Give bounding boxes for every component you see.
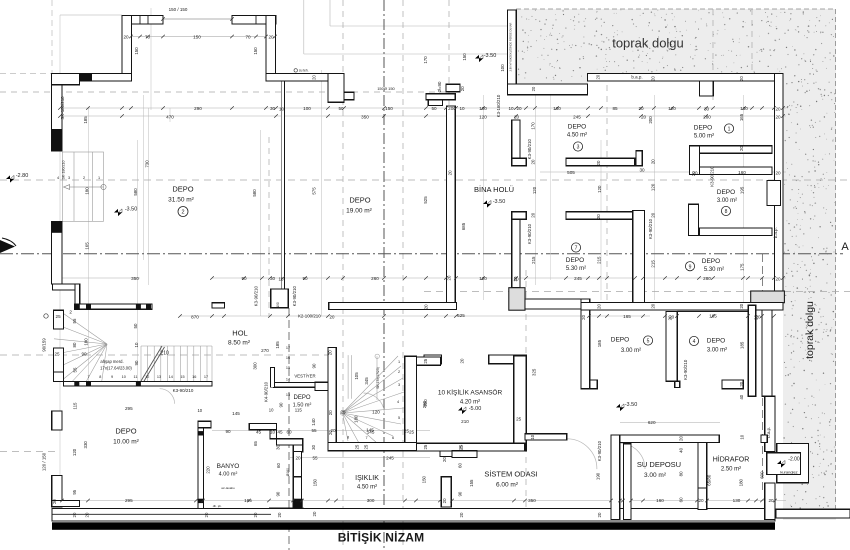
svg-text:25: 25 bbox=[423, 444, 428, 449]
svg-text:115: 115 bbox=[295, 408, 303, 413]
svg-text:150Ø 150: 150Ø 150 bbox=[377, 86, 395, 91]
svg-text:20: 20 bbox=[204, 512, 209, 517]
svg-text:90: 90 bbox=[81, 352, 87, 357]
svg-text:100: 100 bbox=[479, 106, 487, 111]
svg-text:40: 40 bbox=[739, 394, 744, 399]
svg-text:20: 20 bbox=[459, 358, 464, 363]
svg-text:DEPO: DEPO bbox=[702, 258, 720, 265]
svg-text:10: 10 bbox=[278, 277, 284, 282]
svg-text:10 KİŞİLİK ASANSÖR: 10 KİŞİLİK ASANSÖR bbox=[438, 388, 503, 397]
svg-text:4: 4 bbox=[57, 176, 59, 180]
svg-text:90: 90 bbox=[241, 276, 247, 281]
svg-text:HİDRAFOR: HİDRAFOR bbox=[713, 455, 750, 464]
svg-text:10: 10 bbox=[279, 107, 285, 112]
svg-text:toprak dolgu: toprak dolgu bbox=[612, 36, 684, 51]
svg-text:wc-lavabo: wc-lavabo bbox=[221, 486, 235, 490]
svg-text:200: 200 bbox=[648, 116, 653, 124]
svg-text:3.00 m²: 3.00 m² bbox=[644, 472, 667, 479]
svg-text:160: 160 bbox=[553, 106, 561, 111]
svg-text:90: 90 bbox=[312, 363, 317, 368]
svg-text:A: A bbox=[841, 241, 849, 253]
svg-text:20: 20 bbox=[596, 160, 601, 165]
svg-text:14: 14 bbox=[169, 375, 173, 379]
svg-text:5.00 m²: 5.00 m² bbox=[694, 134, 714, 140]
svg-text:DEPO: DEPO bbox=[115, 427, 136, 436]
svg-text:140: 140 bbox=[311, 418, 316, 426]
svg-text:su teh.: su teh. bbox=[299, 69, 309, 73]
svg-text:120: 120 bbox=[372, 410, 380, 415]
svg-text:20: 20 bbox=[596, 74, 601, 79]
svg-text:20: 20 bbox=[775, 107, 781, 112]
svg-text:VESTİYER: VESTİYER bbox=[294, 374, 315, 379]
svg-text:DEPO: DEPO bbox=[293, 395, 310, 401]
svg-text:20: 20 bbox=[459, 512, 464, 517]
svg-text:30: 30 bbox=[270, 106, 276, 111]
svg-text:db. şb.: db. şb. bbox=[213, 504, 222, 508]
svg-text:BANYO: BANYO bbox=[217, 463, 240, 470]
svg-text:180: 180 bbox=[739, 478, 744, 486]
svg-text:20: 20 bbox=[312, 511, 317, 516]
svg-text:20: 20 bbox=[596, 214, 601, 219]
svg-text:2: 2 bbox=[69, 310, 72, 315]
svg-text:150: 150 bbox=[193, 35, 201, 40]
svg-text:20: 20 bbox=[668, 315, 673, 320]
svg-text:20: 20 bbox=[754, 314, 759, 319]
svg-text:K3-90/210: K3-90/210 bbox=[527, 139, 532, 160]
svg-text:145: 145 bbox=[232, 411, 240, 416]
svg-text:245: 245 bbox=[386, 456, 394, 461]
svg-text:20: 20 bbox=[424, 304, 429, 309]
svg-text:600: 600 bbox=[760, 471, 765, 479]
svg-text:13: 13 bbox=[286, 393, 290, 397]
svg-text:8: 8 bbox=[347, 436, 349, 440]
svg-text:4.50 m²: 4.50 m² bbox=[357, 485, 377, 491]
svg-text:580: 580 bbox=[133, 188, 138, 196]
svg-text:20: 20 bbox=[72, 512, 77, 517]
svg-text:180: 180 bbox=[83, 338, 88, 346]
svg-text:4.20 m²: 4.20 m² bbox=[460, 400, 480, 406]
svg-text:55: 55 bbox=[311, 428, 317, 433]
svg-text:Ø=90: Ø=90 bbox=[437, 81, 442, 92]
svg-text:7: 7 bbox=[365, 436, 367, 440]
svg-text:20: 20 bbox=[597, 512, 602, 517]
svg-text:685: 685 bbox=[461, 222, 466, 230]
svg-text:20: 20 bbox=[123, 35, 129, 40]
svg-text:20: 20 bbox=[775, 277, 781, 282]
svg-text:SK-180/210: SK-180/210 bbox=[61, 161, 65, 180]
svg-text:150: 150 bbox=[253, 47, 258, 55]
svg-text:295: 295 bbox=[125, 498, 133, 503]
svg-text:DEPO: DEPO bbox=[717, 189, 735, 196]
svg-text:17: 17 bbox=[286, 346, 290, 350]
svg-text:290: 290 bbox=[194, 106, 202, 111]
svg-text:40: 40 bbox=[679, 447, 684, 452]
svg-text:115: 115 bbox=[72, 402, 77, 410]
svg-text:620: 620 bbox=[648, 420, 656, 425]
svg-text:20: 20 bbox=[651, 303, 656, 308]
svg-text:25: 25 bbox=[56, 314, 62, 319]
svg-text:85: 85 bbox=[612, 106, 618, 111]
svg-text:20: 20 bbox=[328, 410, 333, 415]
svg-text:210: 210 bbox=[160, 351, 169, 357]
svg-text:12: 12 bbox=[145, 375, 149, 379]
svg-text:8.50 m²: 8.50 m² bbox=[228, 340, 251, 347]
svg-text:180: 180 bbox=[85, 187, 90, 195]
svg-text:DEPO: DEPO bbox=[568, 124, 586, 131]
svg-text:20: 20 bbox=[581, 314, 586, 319]
svg-text:20: 20 bbox=[698, 498, 704, 503]
svg-text:20: 20 bbox=[311, 75, 316, 80]
svg-text:150: 150 bbox=[385, 106, 393, 111]
svg-text:20: 20 bbox=[775, 171, 781, 176]
svg-text:19.00 m²: 19.00 m² bbox=[346, 208, 372, 215]
svg-text:8: 8 bbox=[725, 209, 728, 215]
svg-text:SU DEPOSU: SU DEPOSU bbox=[637, 460, 681, 469]
svg-text:350: 350 bbox=[131, 276, 139, 281]
svg-text:90: 90 bbox=[276, 491, 281, 496]
svg-text:80: 80 bbox=[72, 342, 77, 347]
svg-text:20: 20 bbox=[651, 76, 656, 81]
svg-text:K3-90/210: K3-90/210 bbox=[253, 286, 258, 307]
svg-text:345: 345 bbox=[364, 377, 369, 385]
svg-text:150: 150 bbox=[134, 47, 139, 55]
svg-text:90: 90 bbox=[457, 491, 462, 496]
svg-text:K3-90/210: K3-90/210 bbox=[527, 223, 532, 244]
svg-text:6: 6 bbox=[392, 436, 394, 440]
svg-text:25: 25 bbox=[340, 410, 346, 415]
svg-text:185: 185 bbox=[597, 339, 602, 347]
svg-text:IŞIKLIK: IŞIKLIK bbox=[355, 475, 379, 482]
svg-text:17: 17 bbox=[204, 375, 208, 379]
svg-text:65: 65 bbox=[253, 441, 258, 446]
svg-text:SİSTEM ODASI: SİSTEM ODASI bbox=[484, 470, 537, 479]
svg-text:295: 295 bbox=[125, 406, 133, 411]
svg-text:-3.50: -3.50 bbox=[625, 402, 638, 408]
svg-text:20: 20 bbox=[447, 275, 452, 280]
svg-text:K3-90/210: K3-90/210 bbox=[648, 218, 653, 239]
svg-text:4.00 m²: 4.00 m² bbox=[219, 472, 238, 478]
svg-text:20: 20 bbox=[638, 106, 644, 111]
svg-text:20: 20 bbox=[447, 170, 452, 175]
svg-text:10: 10 bbox=[197, 408, 202, 413]
svg-text:90: 90 bbox=[134, 360, 139, 365]
svg-text:b.a.p.: b.a.p. bbox=[773, 227, 778, 238]
svg-text:20: 20 bbox=[679, 436, 684, 441]
svg-text:20: 20 bbox=[330, 314, 335, 319]
svg-text:100: 100 bbox=[500, 64, 505, 72]
svg-text:55: 55 bbox=[312, 456, 318, 461]
svg-text:60: 60 bbox=[679, 497, 684, 502]
svg-text:2.50 m²: 2.50 m² bbox=[721, 467, 741, 473]
svg-text:HOL: HOL bbox=[232, 329, 247, 338]
svg-text:3: 3 bbox=[398, 383, 400, 387]
svg-text:30: 30 bbox=[276, 444, 281, 449]
svg-text:55: 55 bbox=[73, 367, 78, 372]
svg-text:3: 3 bbox=[68, 176, 70, 180]
svg-text:120: 120 bbox=[72, 448, 77, 456]
svg-text:20: 20 bbox=[328, 350, 333, 355]
svg-text:5.30 m²: 5.30 m² bbox=[704, 267, 724, 273]
svg-text:330: 330 bbox=[83, 441, 88, 449]
svg-text:DEPO: DEPO bbox=[707, 338, 725, 345]
svg-text:165: 165 bbox=[623, 314, 631, 319]
svg-text:195: 195 bbox=[244, 498, 252, 503]
svg-text:150: 150 bbox=[462, 53, 467, 61]
svg-text:10: 10 bbox=[739, 434, 744, 439]
svg-text:20: 20 bbox=[277, 512, 282, 517]
svg-text:730: 730 bbox=[144, 160, 149, 168]
svg-text:120: 120 bbox=[597, 185, 602, 193]
svg-text:20: 20 bbox=[651, 212, 656, 217]
svg-text:15: 15 bbox=[180, 375, 184, 379]
svg-text:215: 215 bbox=[531, 256, 536, 264]
svg-text:245: 245 bbox=[574, 276, 582, 281]
svg-text:105: 105 bbox=[354, 372, 359, 380]
svg-text:30: 30 bbox=[311, 444, 316, 449]
svg-text:7: 7 bbox=[575, 246, 578, 252]
svg-text:kuranglez: kuranglez bbox=[780, 470, 797, 475]
svg-text:10.00 m²: 10.00 m² bbox=[113, 439, 139, 446]
svg-text:20: 20 bbox=[84, 512, 89, 517]
svg-text:185: 185 bbox=[740, 341, 745, 349]
svg-text:-2.00: -2.00 bbox=[788, 457, 800, 463]
svg-text:K3-90/210: K3-90/210 bbox=[683, 359, 688, 380]
svg-text:3.00 m²: 3.00 m² bbox=[707, 348, 727, 354]
svg-text:10: 10 bbox=[122, 375, 126, 379]
svg-text:190: 190 bbox=[596, 472, 601, 480]
svg-text:20: 20 bbox=[597, 304, 602, 309]
svg-text:2: 2 bbox=[398, 370, 400, 374]
svg-text:25: 25 bbox=[409, 430, 415, 435]
svg-text:165: 165 bbox=[85, 242, 90, 250]
svg-text:10: 10 bbox=[530, 434, 535, 439]
svg-text:60: 60 bbox=[286, 430, 292, 435]
svg-text:170: 170 bbox=[531, 122, 536, 130]
svg-text:4.50 m²: 4.50 m² bbox=[567, 133, 587, 139]
svg-text:160: 160 bbox=[738, 170, 746, 175]
svg-text:7: 7 bbox=[87, 375, 89, 379]
svg-text:50: 50 bbox=[431, 106, 437, 111]
svg-text:BİTİŞİK NİZAM: BİTİŞİK NİZAM bbox=[338, 530, 425, 545]
svg-text:14: 14 bbox=[286, 378, 290, 382]
svg-text:325: 325 bbox=[532, 368, 537, 376]
svg-text:SK.17x(17/25): SK.17x(17/25) bbox=[376, 367, 380, 389]
svg-text:6.00 m²: 6.00 m² bbox=[496, 482, 519, 489]
svg-text:11: 11 bbox=[134, 375, 138, 379]
svg-text:20: 20 bbox=[739, 76, 744, 81]
svg-text:200: 200 bbox=[423, 399, 428, 407]
svg-text:9: 9 bbox=[111, 375, 113, 379]
svg-text:580: 580 bbox=[252, 189, 257, 197]
svg-text:120: 120 bbox=[532, 186, 537, 194]
svg-text:130: 130 bbox=[740, 106, 748, 111]
svg-text:155: 155 bbox=[469, 479, 474, 487]
svg-text:210: 210 bbox=[461, 419, 469, 424]
svg-text:10: 10 bbox=[269, 408, 274, 413]
svg-text:90: 90 bbox=[278, 402, 283, 407]
svg-text:120 / 150: 120 / 150 bbox=[42, 452, 47, 471]
svg-text:b.a.p.: b.a.p. bbox=[766, 427, 771, 438]
svg-text:ahşap merd.: ahşap merd. bbox=[100, 359, 123, 364]
svg-text:165: 165 bbox=[739, 113, 744, 121]
svg-text:20: 20 bbox=[531, 159, 536, 164]
svg-text:K2-100/210: K2-100/210 bbox=[298, 313, 321, 318]
svg-text:31.50 m²: 31.50 m² bbox=[168, 197, 194, 204]
svg-text:55: 55 bbox=[72, 318, 77, 323]
svg-text:DEPO: DEPO bbox=[611, 337, 629, 344]
svg-text:185: 185 bbox=[83, 116, 88, 124]
svg-text:10: 10 bbox=[270, 430, 276, 435]
svg-text:50: 50 bbox=[133, 323, 138, 328]
svg-text:70: 70 bbox=[245, 35, 251, 40]
svg-text:1: 1 bbox=[728, 127, 731, 133]
svg-text:65/80: 65/80 bbox=[707, 474, 712, 486]
svg-text:8: 8 bbox=[99, 375, 101, 379]
svg-text:220: 220 bbox=[206, 466, 211, 474]
svg-text:45: 45 bbox=[256, 430, 262, 435]
svg-text:15: 15 bbox=[286, 366, 290, 370]
svg-text:-5.00: -5.00 bbox=[469, 406, 482, 412]
svg-text:90: 90 bbox=[225, 429, 231, 434]
svg-text:350: 350 bbox=[361, 115, 369, 120]
svg-text:20: 20 bbox=[268, 35, 274, 40]
svg-text:260: 260 bbox=[371, 276, 379, 281]
svg-text:95: 95 bbox=[72, 489, 77, 494]
svg-text:16: 16 bbox=[286, 356, 290, 360]
svg-text:25: 25 bbox=[423, 358, 428, 363]
svg-text:-3.50: -3.50 bbox=[125, 207, 138, 213]
svg-text:100: 100 bbox=[303, 106, 311, 111]
svg-text:190: 190 bbox=[276, 302, 280, 308]
svg-text:K3-160/210: K3-160/210 bbox=[496, 94, 501, 117]
svg-text:16: 16 bbox=[192, 375, 196, 379]
svg-text:185: 185 bbox=[275, 341, 280, 349]
svg-text:toprak dolgu: toprak dolgu bbox=[804, 301, 816, 359]
svg-text:DEPO: DEPO bbox=[349, 196, 370, 205]
svg-text:4: 4 bbox=[397, 400, 399, 404]
svg-text:215: 215 bbox=[651, 260, 656, 268]
svg-text:525: 525 bbox=[423, 196, 428, 204]
svg-text:45: 45 bbox=[277, 430, 283, 435]
svg-text:20: 20 bbox=[52, 499, 57, 504]
svg-text:BİNA HOLÜ: BİNA HOLÜ bbox=[474, 185, 514, 194]
svg-text:120: 120 bbox=[651, 183, 656, 191]
svg-text:20: 20 bbox=[253, 512, 258, 517]
svg-text:20: 20 bbox=[460, 86, 465, 91]
svg-text:DEPO: DEPO bbox=[566, 257, 584, 264]
svg-text:17x(17.64/23.00): 17x(17.64/23.00) bbox=[100, 366, 132, 371]
svg-text:575: 575 bbox=[312, 187, 317, 195]
svg-text:20: 20 bbox=[775, 115, 781, 120]
svg-text:20: 20 bbox=[739, 303, 744, 308]
svg-text:K3-90/210: K3-90/210 bbox=[709, 166, 714, 187]
svg-text:20: 20 bbox=[691, 171, 696, 176]
svg-text:10: 10 bbox=[508, 106, 514, 111]
svg-text:5: 5 bbox=[647, 339, 650, 345]
svg-text:4: 4 bbox=[693, 339, 696, 345]
svg-text:10: 10 bbox=[134, 342, 139, 347]
svg-text:-3.50: -3.50 bbox=[493, 199, 506, 205]
svg-text:470: 470 bbox=[166, 115, 174, 120]
svg-text:25: 25 bbox=[54, 351, 60, 356]
svg-text:K4-90/210: K4-90/210 bbox=[263, 381, 268, 402]
svg-text:300: 300 bbox=[367, 498, 375, 503]
svg-text:25: 25 bbox=[354, 444, 359, 449]
svg-text:20: 20 bbox=[442, 498, 447, 503]
svg-text:120: 120 bbox=[668, 106, 676, 111]
svg-text:350: 350 bbox=[528, 498, 536, 503]
svg-text:25: 25 bbox=[459, 444, 464, 449]
svg-text:870: 870 bbox=[191, 315, 199, 320]
svg-text:20: 20 bbox=[651, 159, 656, 164]
svg-text:20: 20 bbox=[531, 212, 536, 217]
svg-text:120: 120 bbox=[479, 115, 487, 120]
svg-text:180: 180 bbox=[354, 415, 359, 423]
svg-text:Ø160: Ø160 bbox=[286, 468, 290, 476]
svg-text:-2.80: -2.80 bbox=[16, 173, 29, 179]
svg-text:60: 60 bbox=[457, 463, 462, 468]
svg-text:3.00 m²: 3.00 m² bbox=[621, 348, 641, 354]
svg-text:20: 20 bbox=[328, 430, 333, 435]
svg-text:K3-90/210: K3-90/210 bbox=[173, 388, 194, 393]
svg-text:170: 170 bbox=[423, 56, 428, 64]
svg-text:175: 175 bbox=[740, 263, 745, 271]
svg-text:25: 25 bbox=[364, 444, 369, 449]
svg-text:20: 20 bbox=[739, 146, 744, 151]
svg-text:625: 625 bbox=[457, 313, 465, 318]
svg-text:90/159: 90/159 bbox=[41, 338, 46, 352]
svg-text:1: 1 bbox=[98, 176, 100, 180]
svg-text:215: 215 bbox=[597, 256, 602, 264]
svg-text:3: 3 bbox=[577, 145, 580, 151]
svg-text:K3-90/210: K3-90/210 bbox=[292, 286, 297, 307]
svg-text:13: 13 bbox=[157, 375, 161, 379]
svg-text:20: 20 bbox=[739, 381, 744, 386]
svg-text:2: 2 bbox=[83, 176, 85, 180]
svg-text:5.30 m²: 5.30 m² bbox=[566, 266, 586, 272]
svg-text:90: 90 bbox=[302, 276, 308, 281]
svg-text:300: 300 bbox=[252, 362, 257, 370]
svg-text:270: 270 bbox=[261, 348, 269, 353]
svg-text:20: 20 bbox=[442, 457, 447, 462]
svg-text:60: 60 bbox=[276, 463, 281, 468]
svg-text:145: 145 bbox=[367, 430, 375, 435]
svg-text:3.00 m²: 3.00 m² bbox=[717, 198, 737, 204]
svg-text:-3.50: -3.50 bbox=[484, 53, 497, 59]
svg-text:280: 280 bbox=[703, 276, 711, 281]
svg-text:150: 150 bbox=[421, 475, 426, 483]
svg-text:20: 20 bbox=[295, 456, 301, 461]
svg-text:150 / 150: 150 / 150 bbox=[169, 7, 188, 12]
svg-text:80: 80 bbox=[679, 471, 684, 476]
svg-text:130: 130 bbox=[733, 498, 741, 503]
svg-text:K3-90/210: K3-90/210 bbox=[597, 440, 602, 461]
svg-text:1: 1 bbox=[398, 360, 400, 364]
svg-text:10: 10 bbox=[459, 106, 465, 111]
svg-text:DEPO: DEPO bbox=[172, 185, 193, 194]
svg-text:30: 30 bbox=[639, 168, 645, 173]
svg-text:245: 245 bbox=[573, 115, 581, 120]
svg-text:195: 195 bbox=[740, 186, 745, 194]
svg-text:505: 505 bbox=[567, 170, 575, 175]
svg-text:120: 120 bbox=[479, 276, 487, 281]
svg-text:b.a.p.: b.a.p. bbox=[631, 75, 642, 80]
svg-text:5: 5 bbox=[398, 416, 400, 420]
svg-text:2: 2 bbox=[181, 210, 184, 216]
svg-text:DEPO: DEPO bbox=[694, 125, 712, 132]
svg-text:9: 9 bbox=[689, 264, 692, 270]
svg-text:20: 20 bbox=[531, 86, 536, 91]
